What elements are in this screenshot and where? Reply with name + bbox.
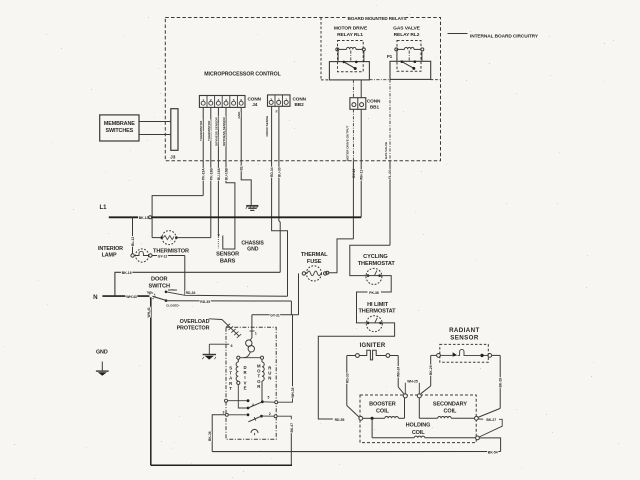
svg-text:RD-34: RD-34 (186, 291, 196, 295)
svg-text:RD-33: RD-33 (345, 373, 349, 383)
svg-text:BB1: BB1 (370, 104, 380, 109)
svg-text:CLOSED: CLOSED (166, 304, 179, 308)
svg-text:5: 5 (233, 98, 235, 102)
svg-text:WH-25: WH-25 (407, 379, 418, 383)
svg-text:MOTOR DRIVE OUTPUT: MOTOR DRIVE OUTPUT (346, 126, 350, 161)
svg-text:CHASSIS: CHASSIS (241, 240, 264, 246)
svg-text:PK-19B: PK-19B (209, 168, 213, 180)
svg-text:DOOR SENSE: DOOR SENSE (265, 116, 269, 137)
svg-text:PK-36: PK-36 (369, 291, 379, 295)
svg-text:PROTECTOR: PROTECTOR (177, 326, 210, 332)
svg-text:5: 5 (268, 396, 270, 400)
svg-text:HOLDING: HOLDING (406, 423, 431, 429)
svg-text:L1: L1 (99, 205, 107, 211)
svg-text:6: 6 (231, 344, 233, 348)
svg-text:BK-16: BK-16 (122, 271, 132, 275)
svg-text:GND: GND (96, 349, 108, 355)
svg-text:BK-36: BK-36 (208, 431, 212, 441)
svg-text:HI LIMIT: HI LIMIT (367, 302, 389, 308)
svg-text:BB2: BB2 (295, 102, 305, 107)
svg-text:2: 2 (269, 412, 271, 416)
svg-text:COIL: COIL (444, 408, 457, 414)
svg-text:DRYNESS SENSOR: DRYNESS SENSOR (214, 116, 218, 146)
svg-text:J4: J4 (252, 102, 258, 107)
svg-text:4: 4 (225, 98, 227, 102)
svg-text:RELAY RL2: RELAY RL2 (394, 32, 420, 38)
svg-text:BK-28: BK-28 (499, 378, 503, 388)
svg-text:MICROPROCESSOR CONTROL: MICROPROCESSOR CONTROL (204, 72, 281, 78)
svg-text:BU-30: BU-30 (277, 167, 281, 177)
svg-text:YL-44: YL-44 (388, 170, 392, 179)
svg-text:THERMISTOR: THERMISTOR (199, 120, 203, 141)
svg-text:BL-12: BL-12 (131, 237, 135, 246)
svg-text:OPEN: OPEN (168, 288, 177, 292)
svg-text:SECONDARY: SECONDARY (433, 401, 467, 407)
svg-text:N: N (93, 294, 98, 301)
svg-text:DRYNESS SENSOR: DRYNESS SENSOR (222, 116, 226, 146)
svg-text:CONN: CONN (248, 97, 262, 102)
svg-text:RD-35: RD-35 (200, 300, 210, 304)
svg-text:BK-26: BK-26 (429, 365, 433, 375)
svg-text:THERMOSTAT: THERMOSTAT (358, 261, 396, 267)
svg-text:WH-43: WH-43 (126, 295, 137, 299)
svg-text:IGNITER: IGNITER (360, 343, 386, 349)
svg-text:RD-55: RD-55 (335, 418, 345, 422)
svg-text:COIL: COIL (412, 430, 425, 436)
svg-text:SENSOR: SENSOR (216, 252, 239, 258)
svg-text:LAMP: LAMP (102, 253, 117, 259)
svg-text:RADIANT: RADIANT (449, 327, 480, 334)
svg-text:CONN: CONN (293, 97, 307, 102)
svg-text:3: 3 (223, 411, 225, 415)
svg-text:BK-54: BK-54 (488, 451, 498, 455)
svg-text:RD-34: RD-34 (270, 167, 274, 177)
svg-text:MOTOR DRIVE: MOTOR DRIVE (334, 26, 368, 32)
svg-text:3: 3 (270, 97, 272, 101)
svg-text:MEMBRANE: MEMBRANE (104, 121, 135, 127)
svg-text:GY-12: GY-12 (158, 254, 168, 258)
svg-text:3: 3 (218, 98, 220, 102)
svg-text:SWITCHES: SWITCHES (105, 128, 133, 134)
svg-text:2: 2 (278, 97, 280, 101)
svg-text:J3: J3 (170, 154, 176, 160)
svg-text:1: 1 (285, 97, 287, 101)
svg-text:THERMAL: THERMAL (301, 252, 328, 258)
svg-text:SWITCH: SWITCH (148, 283, 170, 289)
svg-text:BL: BL (240, 166, 244, 170)
svg-text:OVERLOAD: OVERLOAD (180, 319, 210, 325)
svg-text:PK-19A: PK-19A (202, 168, 206, 180)
svg-text:2: 2 (210, 98, 212, 102)
svg-text:GND: GND (247, 247, 259, 253)
svg-text:SENSOR: SENSOR (450, 334, 479, 341)
svg-text:GAS VALVE: GAS VALVE (393, 26, 420, 32)
svg-text:BK-27: BK-27 (486, 418, 496, 422)
svg-text:FUSE: FUSE (307, 259, 322, 265)
svg-text:INTERNAL BOARD CIRCUITRY: INTERNAL BOARD CIRCUITRY (470, 33, 539, 39)
svg-text:GY-31: GY-31 (270, 314, 280, 318)
svg-text:TMR: TMR (147, 292, 152, 295)
svg-text:6: 6 (240, 98, 242, 102)
svg-text:INTERIOR: INTERIOR (98, 246, 123, 252)
svg-text:BU-16A: BU-16A (217, 167, 221, 180)
svg-text:1: 1 (202, 98, 204, 102)
svg-text:BK-47: BK-47 (290, 423, 294, 433)
svg-text:RELAY RL1: RELAY RL1 (337, 32, 363, 38)
svg-text:BK-13: BK-13 (139, 216, 149, 220)
svg-text:GAS VALVE: GAS VALVE (384, 142, 388, 159)
svg-text:THERMOSTAT: THERMOSTAT (358, 309, 396, 315)
svg-text:CONN: CONN (367, 99, 381, 104)
svg-text:THERMISTOR: THERMISTOR (153, 249, 189, 255)
svg-text:P1: P1 (387, 54, 393, 59)
svg-text:BOARD MOUNTED RELAYS: BOARD MOUNTED RELAYS (348, 16, 407, 21)
svg-text:BARS: BARS (220, 258, 236, 264)
svg-text:THERMISTOR: THERMISTOR (207, 120, 211, 141)
svg-text:BU-16B: BU-16B (225, 167, 229, 180)
svg-text:WH-41: WH-41 (147, 307, 151, 317)
svg-text:WH-24: WH-24 (397, 367, 401, 377)
svg-text:WH-35: WH-35 (291, 387, 295, 397)
svg-text:DOOR: DOOR (151, 277, 167, 283)
svg-text:CYCLING: CYCLING (363, 254, 387, 260)
svg-text:GND: GND (237, 111, 241, 119)
svg-text:BOOSTER: BOOSTER (369, 401, 396, 407)
svg-text:COIL: COIL (376, 408, 389, 414)
svg-text:1: 1 (255, 331, 257, 335)
svg-text:WH-11: WH-11 (360, 170, 364, 180)
